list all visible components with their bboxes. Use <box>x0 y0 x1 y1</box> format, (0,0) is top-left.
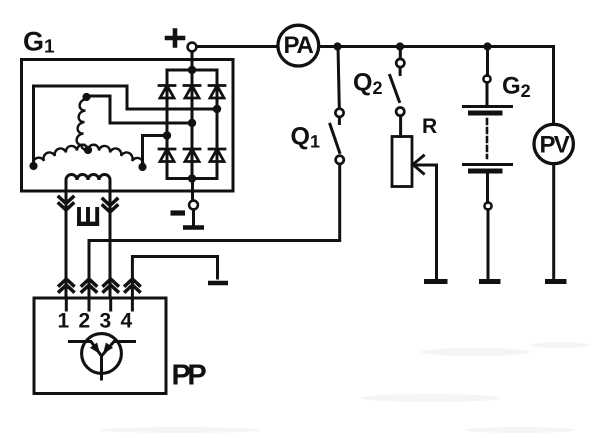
diode VD2 <box>184 86 200 99</box>
wire field left leg <box>65 191 68 298</box>
rectifier column 2 wire <box>191 70 194 179</box>
svg-text:R: R <box>422 115 437 138</box>
terminal + label <box>167 31 183 46</box>
connector arrow terminal 4 <box>125 279 139 292</box>
rectifier top rail wire <box>167 69 217 72</box>
svg-text:3: 3 <box>100 310 112 333</box>
battery dashed link <box>486 119 489 158</box>
node phase B top <box>82 93 90 101</box>
svg-text:4: 4 <box>121 310 133 333</box>
wire rectifier minus down to terminal <box>191 179 194 201</box>
transistor VT <box>82 334 122 374</box>
wire + terminal down to rectifier top rail <box>191 52 194 71</box>
stator winding phase C (right arc coil) <box>88 145 143 167</box>
node star point <box>84 146 92 154</box>
ground at battery <box>479 279 501 284</box>
node phase C end <box>138 163 146 171</box>
regulator PP box <box>34 298 166 394</box>
ground at PV <box>545 279 567 284</box>
voltmeter PV <box>534 124 573 163</box>
ammeter PA <box>278 25 319 66</box>
wire field right leg <box>109 191 112 298</box>
battery G2 <box>486 47 489 76</box>
diode VD5 <box>184 149 200 162</box>
battery plate short 2 <box>471 169 501 174</box>
connector arrow terminal 3 <box>104 279 118 292</box>
ground at rheostat <box>424 279 448 284</box>
rectifier column 3 wire <box>216 70 219 179</box>
node rectifier - rail <box>188 174 196 182</box>
stator winding phase A (left arc coil) <box>33 145 88 166</box>
diode VD3 <box>209 86 225 99</box>
terminal - circle <box>189 201 198 210</box>
battery plate long 1 <box>464 105 512 108</box>
terminal + circle <box>188 43 197 52</box>
rheostat R <box>392 137 412 187</box>
diode VD1 <box>159 86 175 99</box>
rheostat wiper arrow <box>414 164 437 167</box>
diode VD4 <box>159 149 175 162</box>
field winding coil <box>66 175 110 192</box>
wire Q2 to rheostat <box>399 116 402 137</box>
svg-text:PA: PA <box>284 32 314 59</box>
node C (G2 tap) <box>483 42 491 50</box>
svg-text:PV: PV <box>540 132 570 159</box>
label - <box>171 210 186 215</box>
svg-text:1: 1 <box>58 310 70 333</box>
stator winding phase B (vertical coil) <box>77 99 87 149</box>
node A (Q1 tap) <box>333 42 341 50</box>
connector arrow terminal 2 <box>82 279 96 292</box>
brush left (double chevron down) <box>59 197 73 210</box>
diode VD6 <box>209 149 225 162</box>
label Ш <box>77 207 99 224</box>
svg-text:2: 2 <box>79 310 91 333</box>
wire phase C (right) to column 1 <box>143 136 168 168</box>
wire PA to top-right corner and down to PV <box>320 47 554 123</box>
brush right (double chevron down) <box>103 199 117 212</box>
svg-text:PP: PP <box>172 360 207 392</box>
generator G1 box <box>22 60 234 192</box>
wire - terminal to ground <box>192 210 195 227</box>
wire Q1 to terminal 2 <box>89 164 340 298</box>
node B (Q2 tap) <box>396 42 404 50</box>
labels 1 2 3 4 <box>58 310 133 333</box>
connector arrow terminal 1 <box>59 279 73 292</box>
switch Q2 <box>399 47 402 59</box>
battery plate short 1 <box>471 111 501 116</box>
node rectifier + rail <box>188 66 196 74</box>
faint scan smudges <box>100 342 590 433</box>
battery plate long 2 <box>464 163 512 166</box>
rectifier bottom rail wire <box>167 177 217 180</box>
transistor arrow left <box>90 343 100 355</box>
wire PV to ground <box>552 165 555 278</box>
node phase B on column 2 <box>188 119 196 127</box>
node phase C on column 1 <box>163 131 171 139</box>
wire phase A (left) to column 3 <box>34 86 218 166</box>
wire terminal 4 to ground <box>132 257 217 299</box>
wire wiper to ground <box>435 165 438 278</box>
transistor arrow right <box>103 343 113 355</box>
ground at terminal 4 <box>208 281 228 286</box>
wire + terminal to ammeter PA <box>197 45 277 48</box>
ground at - terminal <box>183 225 204 230</box>
node phase A end <box>29 162 37 170</box>
terminal stubs inside PP <box>65 298 68 310</box>
switch Q1 <box>338 47 339 109</box>
wire phase B (top coil) to column 2 <box>87 96 193 123</box>
node phase A on column 3 <box>213 105 221 113</box>
label G1 <box>23 26 55 57</box>
rectifier column 1 wire <box>166 70 169 179</box>
